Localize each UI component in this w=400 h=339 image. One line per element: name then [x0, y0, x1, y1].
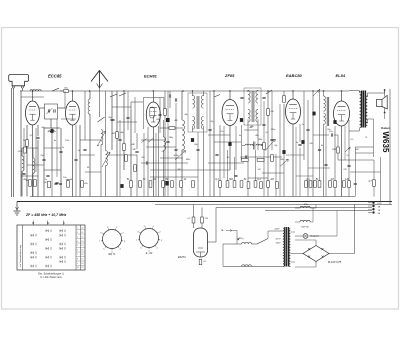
- coil L3: [88, 99, 90, 114]
- svg-text:7: 7: [77, 254, 78, 256]
- wire x308: [307, 100, 309, 197]
- resistor row R23: [240, 181, 243, 188]
- node dots stage4: [292, 90, 293, 91]
- capacitor C10 trimmers: [169, 94, 170, 97]
- wire x268: [267, 91, 269, 109]
- svg-text:18: 18: [81, 263, 83, 265]
- band switch slashes: [142, 138, 154, 143]
- switch S1a on top bus: [52, 88, 63, 91]
- mains RF choke: [300, 220, 310, 222]
- wire vertical x52: [51, 128, 53, 170]
- wire TA stub: [232, 230, 237, 232]
- switch slash top near EABC80: [266, 90, 272, 94]
- volume pot P2 arrow: [280, 159, 288, 166]
- pot P1 diagonal arrow: [265, 139, 276, 151]
- wire x105.5: [105, 91, 107, 151]
- wire mid horizontal x80-101: [80, 139, 101, 141]
- wire lamp leads: [295, 235, 303, 237]
- svg-text:16: 16: [81, 254, 83, 256]
- svg-text:3: 3: [77, 236, 78, 238]
- tube U1b ECC85 triode 2: [66, 101, 80, 125]
- wire stage2 horizontals: [112, 106, 131, 108]
- wire vertical x220: [219, 125, 221, 197]
- svg-text:2: 2: [77, 232, 78, 234]
- wire af horizontal: [286, 154, 304, 156]
- wire psu right vertical: [354, 205, 356, 254]
- svg-text:130: 130: [345, 178, 350, 181]
- resistor R14 row: [180, 181, 183, 188]
- mains choke 2: [242, 265, 252, 267]
- svg-text:EL84: EL84: [336, 73, 346, 78]
- svg-text:10: 10: [77, 267, 79, 269]
- table contact glyphs: [31, 234, 33, 237]
- output transformer T4 right winding: [366, 96, 368, 126]
- resistor R3: [34, 180, 37, 187]
- wire drop to mains line: [236, 231, 238, 245]
- trimmer box between triodes: [45, 104, 58, 119]
- wire choke leads: [295, 221, 300, 223]
- resistor row R25: [254, 181, 257, 188]
- FM dipole antenna arrow: [91, 71, 108, 88]
- switch position table: [17, 225, 85, 270]
- wire ECH81 frame: [144, 97, 164, 129]
- svg-text:0,1: 0,1: [347, 155, 350, 157]
- wire OT primary bottom: [358, 128, 360, 131]
- wire EL84 grid: [341, 91, 343, 101]
- wire EL84 cathode down: [341, 126, 343, 197]
- coupling coil horizontal stage1: [48, 131, 55, 132]
- wire vertical x214: [213, 91, 215, 197]
- wire feedback horizontal: [338, 159, 374, 161]
- wire grid tube2: [72, 91, 74, 101]
- wire trimmer bottom: [50, 119, 52, 128]
- svg-text:ECC85: ECC85: [48, 74, 62, 79]
- resistor stacked stage1: [24, 147, 27, 153]
- capacitor extras stage1: [42, 159, 45, 160]
- grid resistor R38: [337, 147, 340, 153]
- wire speaker leads: [384, 90, 386, 97]
- power transformer T5 core: [284, 227, 286, 267]
- svg-text:0,1: 0,1: [204, 261, 207, 263]
- cathode cap label: [345, 147, 350, 152]
- mains switch S5: [257, 239, 268, 245]
- wire x85 vertical: [84, 91, 86, 140]
- wire grid ECH81: [131, 101, 143, 103]
- wire vertical x112: [111, 91, 113, 150]
- svg-text:mit Tastenabstimmung: mit Tastenabstimmung: [19, 244, 22, 267]
- tone pot P2: [313, 89, 320, 96]
- svg-text:P=6,3 V: P=6,3 V: [311, 236, 320, 238]
- wire stage2 extras: [119, 120, 121, 197]
- wire x38: [37, 125, 39, 136]
- resistor R8 osc grid: [169, 127, 175, 130]
- wire L7: [181, 91, 183, 120]
- tube U2 ECH81: [146, 102, 160, 127]
- wire vertical x44: [43, 128, 45, 197]
- svg-text:B: B: [32, 221, 34, 225]
- AGC top bus wire: [22, 90, 349, 92]
- resistor R4 20k: [81, 181, 84, 188]
- resistor row R28: [276, 182, 279, 189]
- svg-text:1: 1: [77, 228, 78, 230]
- wire right edge vertical: [389, 89, 391, 205]
- capacitor C1 30a: [64, 90, 69, 93]
- svg-text:B 220 C75: B 220 C75: [328, 260, 342, 264]
- wire IF T1 top leads: [192, 91, 194, 96]
- resistor extras stage1: [48, 181, 51, 188]
- capacitor C4: [36, 137, 39, 138]
- tube U3 ZF85 IF amplifier: [222, 100, 238, 126]
- resistor R10 row: [139, 181, 142, 188]
- wire bus stub x337: [336, 211, 338, 237]
- svg-text:14: 14: [81, 245, 83, 247]
- svg-text:17: 17: [81, 258, 83, 260]
- svg-text:ZF = 458 kHz + 10,7 MHz: ZF = 458 kHz + 10,7 MHz: [25, 213, 67, 217]
- coil L4 tuned: [101, 130, 103, 145]
- capacitor C14: [354, 183, 357, 184]
- mains choke 1: [242, 242, 252, 244]
- table row lines: [76, 229, 85, 231]
- svg-text:9: 9: [77, 263, 78, 265]
- speaker LS1: [377, 100, 383, 107]
- wire horizontal link 3: [51, 170, 53, 197]
- feedback lower run: [350, 171, 381, 173]
- wire EABC80 top: [292, 91, 294, 99]
- power transformer T5 secondary coil: [289, 228, 290, 267]
- wire vertical x117: [116, 91, 118, 197]
- resistor R2 40k: [29, 180, 32, 187]
- resistor row R32: [318, 181, 321, 188]
- svg-text:.5M: .5M: [111, 133, 115, 135]
- wire mains left verticals: [222, 244, 224, 266]
- svg-text:Kaiser: Kaiser: [381, 126, 390, 130]
- wire x304: [303, 91, 305, 160]
- wire horizontal af: [240, 156, 282, 158]
- trimmer cap C2: [48, 109, 49, 112]
- resistor row R34: [334, 181, 337, 188]
- svg-text:E - 80: E - 80: [146, 252, 153, 255]
- wire x335 down: [334, 126, 336, 197]
- wire vertical x124: [123, 91, 125, 170]
- svg-text:NSF 60: NSF 60: [301, 227, 309, 229]
- wire anode tube1 down: [32, 125, 34, 197]
- wire x176 vertical: [175, 103, 177, 197]
- wire to switch: [251, 243, 257, 245]
- wire ECH81 top: [152, 91, 154, 102]
- resistor row R30: [309, 181, 312, 188]
- FM feed wire: [98, 87, 100, 117]
- node dots stage1: [20, 90, 21, 91]
- table header stubs: [33, 221, 35, 226]
- resistor R5 0.5M: [116, 132, 119, 139]
- resistor extras stage2: [125, 155, 128, 162]
- capacitor extras stage3: [208, 129, 211, 130]
- wire x137: [136, 133, 138, 149]
- power transformer T5 primary coil: [283, 228, 284, 267]
- capacitor C8: [110, 119, 113, 120]
- svg-text:ZF85: ZF85: [224, 73, 235, 78]
- wire L3 top: [89, 91, 91, 99]
- detector load resistor R17: [241, 158, 248, 161]
- T3 lower coil: [324, 113, 326, 124]
- speaker LS1 terminal dots: [384, 89, 386, 91]
- resistor R37: [373, 180, 376, 187]
- wire x27 down: [26, 125, 28, 140]
- wire x349 screen: [348, 120, 350, 197]
- wire stage3 extras: [209, 91, 211, 197]
- svg-text:EM 71: EM 71: [109, 253, 117, 256]
- chassis main ground bus wire: [17, 201, 392, 203]
- mains line 1: [223, 243, 242, 245]
- wire vertical x284: [283, 104, 285, 197]
- wire fuse leads: [295, 207, 300, 209]
- svg-text:19: 19: [81, 267, 83, 269]
- wire psu drop x313: [312, 208, 314, 222]
- capacitor C13 coupling: [331, 133, 332, 136]
- svg-text:10: 10: [81, 228, 83, 230]
- heater bus wire: [155, 204, 392, 206]
- resistor row R24: [247, 182, 250, 189]
- wire OT secondary leads: [367, 93, 369, 97]
- pilot lamp P 6,3V: [303, 234, 308, 239]
- resistor row R26: [260, 182, 263, 189]
- switch S2 AM-FM: [110, 93, 126, 97]
- wire grid tube1: [32, 91, 34, 101]
- resistor R16 180k: [267, 109, 270, 116]
- capacitor C9 140p: [135, 151, 138, 152]
- chassis upper bus wire: [30, 196, 355, 198]
- svg-text:EABC80: EABC80: [286, 73, 303, 78]
- wire L4 down: [100, 145, 102, 197]
- resistor R1: [26, 140, 29, 147]
- svg-text:1M: 1M: [44, 182, 47, 184]
- resistor R19: [283, 96, 286, 103]
- wire L6: [163, 120, 165, 137]
- feedthrough cap black dot: [166, 118, 170, 122]
- svg-text:220V: 220V: [273, 229, 280, 231]
- capacitor C15: [298, 144, 301, 145]
- svg-text:11: 11: [81, 232, 83, 234]
- feedback loop wires: [355, 146, 373, 148]
- ratio detector transformer horizontal: [245, 144, 253, 145]
- ratio detector transformer T3: [324, 96, 326, 111]
- svg-text:5M: 5M: [258, 169, 261, 171]
- capacitor extras stage2: [118, 139, 121, 140]
- ECH81 inner electrode: [150, 107, 155, 118]
- tube socket diagram right: [140, 229, 159, 248]
- coil L2 FM tank: [22, 156, 24, 171]
- switch S3: [214, 95, 220, 98]
- wire vertical x61: [60, 128, 62, 197]
- svg-text:10M: 10M: [332, 149, 336, 151]
- wire stage4 horizontals: [308, 167, 330, 169]
- switch S1b diagonal: [98, 117, 105, 122]
- coil AM antenna second: [33, 158, 35, 173]
- wire stage1 horizontals: [21, 96, 44, 98]
- svg-text:ECH81: ECH81: [144, 74, 158, 79]
- wire ZF85 bottom: [229, 126, 231, 171]
- wire x313: [312, 91, 314, 197]
- T3 core bars: [326, 97, 328, 126]
- resistor row R36: [348, 181, 351, 188]
- bridge rectifier B220C75: [303, 246, 329, 262]
- wire ZF85 grid top: [229, 91, 231, 100]
- svg-text:1M: 1M: [330, 178, 333, 181]
- heater bus wire 2: [216, 207, 372, 209]
- wire transformer secondary taps: [291, 231, 295, 233]
- wire verticals to bus stage3: [227, 150, 229, 181]
- svg-text:W635: W635: [381, 132, 390, 153]
- L4 tuning arrow: [98, 131, 106, 146]
- resistor extras stage3: [271, 155, 274, 162]
- wire terminal links: [368, 202, 372, 204]
- wire anode tube2 down: [72, 125, 74, 197]
- svg-text:U = Alle Tasten raus: U = Alle Tasten raus: [40, 276, 62, 279]
- svg-text:0,1: 0,1: [162, 151, 165, 153]
- svg-text:15: 15: [81, 250, 83, 252]
- resistor R18: [257, 158, 264, 161]
- wire switch to transformer: [267, 231, 269, 239]
- mains line 2: [223, 265, 283, 267]
- resistor R15 row: [192, 181, 195, 188]
- wire x165: [164, 91, 166, 109]
- tube U1a ECC85 triode 1: [26, 101, 40, 125]
- oscillator coil L6: [164, 137, 166, 150]
- svg-text:EM71: EM71: [178, 255, 186, 259]
- wire L2: [21, 148, 23, 156]
- capacitor C3: [54, 109, 55, 112]
- wire pot wiper: [275, 154, 277, 197]
- feedthrough black dots scattered: [120, 184, 123, 188]
- svg-text:13: 13: [81, 241, 83, 243]
- wire x284 top: [283, 91, 285, 96]
- wire detector leads: [242, 145, 245, 147]
- output transformer T4 core: [361, 91, 363, 128]
- wire EABC80 bottom: [292, 124, 294, 197]
- resistor R13 row: [171, 181, 174, 188]
- tube socket diagram left: [103, 230, 122, 249]
- wire horizontal link 2: [44, 169, 61, 171]
- resistor row R27: [267, 181, 270, 188]
- wire bridge connections: [329, 253, 355, 255]
- magic eye grid resistors: [192, 217, 195, 223]
- svg-text:5: 5: [77, 245, 78, 247]
- antenna T outline: [9, 75, 29, 86]
- tube U5 EL84: [334, 101, 350, 126]
- wire stage4 extras: [295, 127, 297, 197]
- resistor R7: [164, 109, 167, 116]
- svg-text:6: 6: [77, 250, 78, 252]
- wire x374: [373, 160, 375, 180]
- resistor R6: [123, 144, 126, 151]
- wire antenna to bus: [21, 88, 23, 91]
- tube U4 EABC80: [286, 99, 301, 124]
- fuse Si 420a: [300, 206, 310, 208]
- ground symbol: [14, 202, 21, 216]
- svg-text:1M: 1M: [205, 218, 208, 220]
- capacitor extras stage4: [318, 149, 321, 150]
- resistor row stage4 R29: [305, 181, 308, 188]
- wire OT primary top: [349, 90, 359, 92]
- wire AM coil 2: [32, 148, 34, 158]
- resistor R11 row: [149, 181, 152, 188]
- feedthrough dot osc row: [165, 181, 168, 186]
- wire vertical x131: [130, 110, 132, 197]
- wire x300: [299, 124, 301, 142]
- capacitor C11 pair: [240, 97, 243, 98]
- L5 tuning arrow: [102, 152, 110, 167]
- svg-text:1M: 1M: [152, 178, 155, 181]
- node dots stage3: [213, 90, 214, 91]
- capacitor C7 10n: [66, 179, 69, 180]
- wire x158 anode side: [158, 126, 160, 197]
- svg-text:8: 8: [77, 258, 78, 260]
- svg-text:110V: 110V: [276, 243, 281, 245]
- wire horizontal link 1: [22, 147, 38, 149]
- wire stage3 horizontals: [208, 134, 230, 136]
- resistor row R21: [226, 181, 229, 188]
- wire stage1 extras: [35, 128, 37, 172]
- terminal circles: [372, 202, 374, 204]
- oscillator coil L7 long: [182, 120, 185, 150]
- antenna lead-in wires: [11, 88, 13, 197]
- wire ECH81 bottom: [152, 127, 154, 197]
- wire magic eye feeds: [193, 205, 195, 218]
- svg-text:4: 4: [77, 241, 78, 243]
- wire magic eye right lead: [208, 241, 217, 243]
- osc tuning arrow: [175, 151, 186, 161]
- wire mid horizontal2: [150, 169, 230, 171]
- resistor row R22: [233, 181, 236, 188]
- wire x80 vertical: [79, 125, 81, 197]
- capacitor magic eye bottom: [199, 259, 202, 265]
- coil L1 on top bus: [30, 90, 41, 91]
- wire T3 leads: [323, 91, 325, 96]
- coil L5 tuned: [106, 151, 108, 166]
- wire IF T1 bottom leads: [192, 126, 194, 132]
- resistor row R31: [314, 181, 317, 188]
- wire coupling: [40, 107, 45, 109]
- resistor row R33: [329, 181, 332, 188]
- svg-text:1M: 1M: [270, 178, 273, 181]
- bridge diode marks: [308, 248, 324, 258]
- bus wire 3: [265, 210, 372, 212]
- magic eye tube EM71: [194, 228, 208, 257]
- antenna terminal circles: [12, 86, 14, 88]
- resistor row stage3 R20: [219, 181, 222, 188]
- resistor R9 row: [130, 181, 133, 188]
- wire IF T2 leads: [247, 90, 249, 91]
- resistor row R35: [343, 181, 346, 188]
- output transformer T4 left winding: [360, 92, 362, 128]
- IF transformer T1 can: [188, 93, 207, 132]
- wire vertical x21: [20, 91, 22, 197]
- IF transformer T2 can: [244, 88, 261, 125]
- wire link x170: [169, 91, 171, 94]
- svg-text:12: 12: [81, 236, 83, 238]
- svg-text:0,1: 0,1: [188, 218, 191, 220]
- wire x146 cathode: [147, 127, 149, 197]
- capacitor C6: [55, 182, 58, 183]
- wire coupling to EL84: [313, 134, 329, 136]
- resistor R12 row: [162, 181, 165, 188]
- wire mid horizontal x141-188: [141, 162, 188, 164]
- node dots stage2: [123, 90, 124, 91]
- svg-text:127V: 127V: [275, 239, 281, 241]
- wire speaker return: [384, 113, 386, 120]
- wire osc grid link: [160, 127, 169, 129]
- svg-text:6,3V: 6,3V: [378, 203, 383, 205]
